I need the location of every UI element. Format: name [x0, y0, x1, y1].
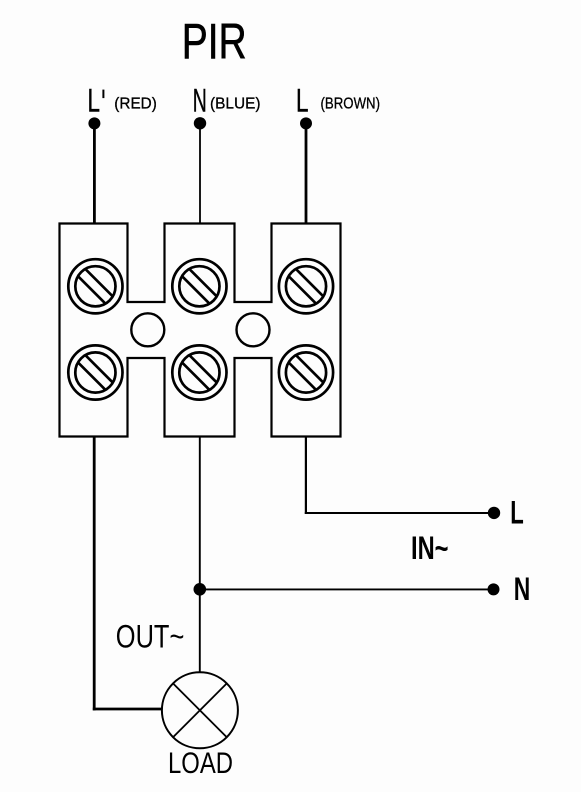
node N top dot [194, 117, 206, 129]
node L' top dot [88, 117, 100, 129]
wire left bottom vertical [93, 437, 96, 711]
screw terminal bottom-right [279, 345, 333, 399]
wire N top vertical [199, 123, 201, 224]
node L top dot [300, 117, 312, 129]
wire N horizontal [200, 588, 493, 590]
terminal block outline [60, 224, 341, 437]
svg-text:PIR: PIR [182, 14, 247, 70]
svg-text:N: N [193, 83, 207, 119]
screw terminal top-right [279, 259, 333, 313]
wire middle vertical to load [199, 437, 201, 674]
wire L' top vertical [93, 123, 96, 224]
node N dot [488, 583, 500, 595]
svg-text:L: L [296, 83, 309, 119]
svg-text:(RED): (RED) [114, 95, 157, 112]
screw terminal bottom-left [68, 345, 122, 399]
mounting hole right [237, 313, 270, 346]
label L' (RED) [88, 83, 157, 119]
svg-text:N: N [514, 571, 531, 607]
mounting hole left [131, 313, 164, 346]
svg-text:(BROWN): (BROWN) [321, 95, 381, 112]
svg-text:LOAD: LOAD [168, 747, 233, 780]
wire L top vertical [305, 123, 308, 224]
junction node dot [194, 583, 207, 596]
wire right bottom vertical [305, 437, 307, 515]
svg-text:IN~: IN~ [411, 530, 449, 566]
node L dot [488, 507, 500, 519]
svg-text:L: L [510, 494, 524, 530]
screw terminal bottom-middle [172, 345, 226, 399]
screw terminal top-left [68, 259, 122, 313]
svg-text:L: L [88, 83, 101, 119]
label N (BLUE) [193, 83, 261, 119]
wire right horizontal to L [305, 512, 493, 514]
screw terminal top-middle [172, 259, 226, 313]
label L (BROWN) [296, 83, 380, 119]
svg-text:(BLUE): (BLUE) [210, 95, 261, 112]
wire left bottom horizontal to load [93, 708, 163, 711]
lamp LOAD symbol [162, 672, 238, 748]
svg-text:OUT~: OUT~ [116, 619, 185, 655]
